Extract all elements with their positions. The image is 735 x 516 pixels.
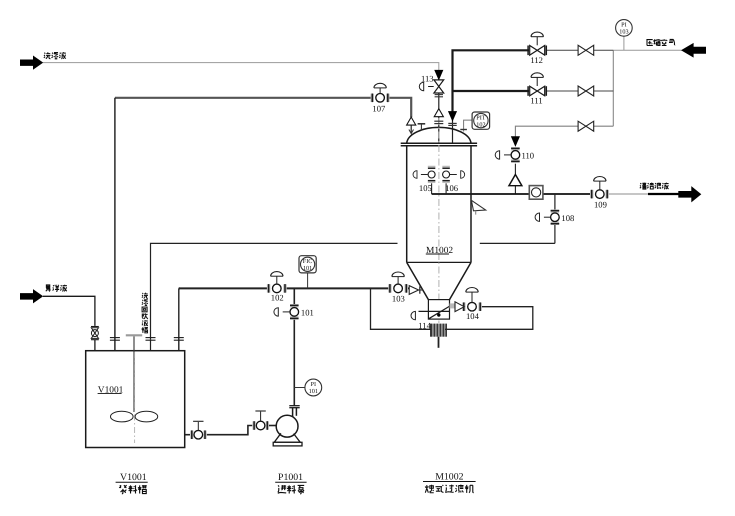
wire: discharge loop from valve 104 around to drain hatch — [445, 307, 532, 330]
wire: valve 108 down to recirculation line — [554, 225, 556, 243]
flow arrow onto vessel air nozzle — [449, 112, 457, 121]
legend 烛式过滤机 (candle filter) — [425, 485, 473, 493]
instrument PIT102 (shared display) — [472, 112, 490, 129]
svg-text:106: 106 — [445, 183, 459, 193]
svg-text:PIT: PIT — [476, 114, 486, 121]
label 易浮液 (floating liquid) — [46, 285, 67, 292]
check valve on air branch 1 — [578, 45, 594, 55]
svg-text:105: 105 — [419, 183, 432, 193]
wire: branch 1 manifold to valve 112 — [546, 49, 614, 51]
tank V1001 — [86, 351, 185, 448]
wire: bypass from feed line down to drain hatch — [371, 288, 432, 329]
bottom legend — [116, 472, 476, 484]
wire: easy-float inlet line and drop through tank inlet valve — [43, 296, 95, 326]
valve number labels — [271, 55, 607, 331]
wire: valve 107 line from tank riser to dome (thick gray) — [115, 97, 372, 99]
valve 111 (gate valve with flanges and diaphragm actuator) — [528, 73, 546, 96]
svg-text:103: 103 — [392, 293, 405, 303]
svg-text:102: 102 — [476, 121, 485, 128]
inlet arrow compressed air (points left) — [681, 43, 706, 58]
label 洗涤液 (wash liquid) — [44, 52, 66, 59]
svg-text:101: 101 — [303, 265, 312, 272]
vent triangle above filtrate line (below valve 110) — [509, 174, 522, 185]
reducer from valve 103 into cone — [409, 286, 418, 295]
wire: valve 111 joining drop (thick) — [453, 90, 530, 92]
outlet arrow clean filtrate (points right) — [678, 186, 701, 202]
svg-text:110: 110 — [522, 151, 535, 161]
drain stub below hatch — [438, 337, 440, 348]
valve 104 (horizontal ball valve with diaphragm actuator) — [462, 288, 482, 312]
wire: branch 3 manifold to valve 110 drop — [515, 126, 613, 137]
svg-text:V1001: V1001 — [120, 472, 147, 483]
wire: valve 112 to vessel drop (thick) — [453, 50, 530, 111]
wire: recirculation line left segment to tank drop — [151, 243, 398, 339]
wire: wash-liquid header from inlet arrow to valve 113 drop — [43, 63, 439, 71]
wire: valve 108 drop from filtrate line — [554, 194, 556, 210]
svg-text:109: 109 — [594, 200, 607, 210]
wire: feed corner down into tank — [178, 288, 180, 350]
wire: compressed air header right of manifold to arrow — [613, 49, 681, 51]
wire: branch 2 manifold to valve 111 — [546, 90, 614, 92]
svg-text:114: 114 — [418, 321, 431, 331]
pilot half-circle for valve 114 — [411, 311, 415, 319]
svg-text:112: 112 — [530, 55, 543, 65]
valve 110 (vertical ball valve with pilot) — [495, 147, 520, 163]
pump suction valve (manual, horizontal) — [253, 411, 269, 430]
vertical line label 洗涤回收液槽 — [142, 293, 148, 333]
discharge box right nozzle pad — [450, 303, 455, 308]
wire: recirculation line right segment — [480, 242, 555, 244]
wire: pump discharge riser through valve 101 — [293, 288, 295, 304]
svg-text:102: 102 — [271, 293, 284, 303]
wire: FIC101 stem — [307, 273, 309, 289]
equipment tag labels — [98, 246, 454, 396]
label 清洁滤液 (clean filtrate) — [640, 183, 669, 190]
discharge box under cone — [419, 300, 450, 320]
valve 112 (gate valve with flanges and diaphragm actuator) — [528, 32, 546, 55]
svg-text:108: 108 — [561, 213, 574, 223]
valve 109 (horizontal ball valve with diaphragm actuator) — [590, 177, 609, 199]
instrument FIC101 (shared display) — [299, 256, 316, 273]
vessel M1002 candle filter — [401, 127, 477, 299]
svg-text:FIC: FIC — [303, 258, 313, 265]
vent triangle on dome (below valve 113) — [434, 109, 443, 117]
tank top nozzle flanges — [110, 338, 184, 341]
valve 102 (horizontal ball valve with diaphragm actuator) — [267, 272, 287, 293]
wire: riser from valve 107 line down into tank — [114, 98, 116, 351]
svg-text:PI: PI — [311, 381, 317, 388]
label 压缩空气 (compressed air) — [646, 39, 675, 45]
svg-text:103: 103 — [619, 29, 628, 36]
drain hatch screen 114 — [431, 324, 447, 337]
valve 101 (vertical ball valve with pilot) — [274, 304, 299, 320]
sight glass on filtrate line — [529, 186, 543, 200]
wire: valve 102 feed stub left — [179, 287, 180, 289]
svg-text:104: 104 — [466, 311, 480, 321]
pump P1001 — [273, 406, 302, 446]
legend 浆料槽 (slurry tank) — [119, 485, 147, 494]
wire: wash inlet drop below valve 113 to dome triangle — [438, 93, 440, 109]
valve 108 (vertical ball valve with pilot) — [535, 209, 559, 225]
wire: pump suction piping with jog to tank outlet valve — [207, 426, 252, 435]
reducer into valve 104 — [455, 302, 464, 312]
svg-text:107: 107 — [372, 104, 386, 114]
svg-text:P1001: P1001 — [278, 472, 303, 483]
flow arrow into valve 110 — [512, 137, 520, 146]
tank inlet valve (hourglass with ball) — [91, 327, 99, 340]
node: flange ticks below valve 113 — [435, 95, 443, 97]
svg-text:101: 101 — [301, 307, 314, 317]
inlet arrow easy-float liquid — [20, 289, 43, 303]
svg-text:113: 113 — [421, 74, 434, 84]
wire: recirculation tank nozzle stub — [150, 339, 152, 351]
valve 113 (vertical globe valve with pilot) — [419, 80, 443, 93]
node: dome nozzle tick for PIT102 tap — [460, 129, 467, 131]
tank centerline — [134, 352, 136, 443]
wire: tank outlet nozzle stub — [185, 434, 190, 436]
wire: PIT102 tap to dome nozzle — [464, 120, 473, 131]
instrument PI101 — [305, 379, 322, 396]
instrument texts — [303, 22, 629, 396]
vent triangle on dome (from valve 107 line) — [407, 117, 416, 125]
wire: PI101 tap — [294, 387, 305, 389]
wire: 107 dome triangle stem — [410, 125, 412, 134]
wire: PI103 stem — [623, 36, 625, 50]
wire: filtrate main line inside vessel to valve 109 — [432, 193, 592, 195]
level indicator flag on vessel wall — [471, 200, 485, 211]
legend 进料泵 (feed pump) — [278, 485, 304, 494]
wire: air drop stem to dome — [452, 120, 454, 144]
vessel centerline — [438, 118, 440, 323]
check valve on air branch 2 — [578, 86, 594, 96]
flow arrow above valve 113 — [435, 70, 443, 79]
node: dome nozzle flange under air drop — [448, 123, 456, 125]
flap valve 114 diagonal with pivot dot — [429, 306, 450, 318]
agitator motor bar — [126, 334, 142, 336]
agitator blades — [111, 411, 134, 422]
wire: air manifold vertical — [612, 50, 614, 126]
svg-text:111: 111 — [530, 96, 542, 106]
wire: valve 110 chain to filtrate line — [514, 164, 516, 175]
check valve on air branch 3 — [578, 121, 594, 131]
svg-text:101: 101 — [309, 388, 318, 395]
valve 105 (candle filter isolation, vertical) — [413, 166, 435, 194]
node: dome nozzle blind flange — [418, 124, 426, 131]
valve 107 (horizontal ball valve with diaphragm actuator) — [371, 83, 390, 102]
svg-text:PI: PI — [621, 22, 627, 29]
wire: filtrate line valve 109 to outlet arrow — [608, 193, 649, 195]
node: dome nozzle flange under valve 113 — [434, 121, 443, 123]
valve 106 (candle filter isolation, vertical) — [442, 166, 464, 194]
valve 103 (horizontal ball valve with diaphragm actuator) — [388, 272, 408, 293]
tank outlet valve (manual, horizontal) — [190, 421, 206, 439]
inlet arrow wash liquid — [20, 56, 43, 70]
agitator shaft — [133, 336, 135, 412]
instrument PI103 — [616, 20, 633, 37]
wire: feed main line from recirc corner through valves 102,103 to cone — [179, 287, 268, 289]
